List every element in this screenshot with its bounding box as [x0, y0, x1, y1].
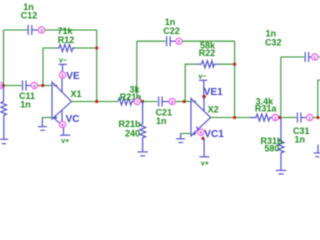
- junction right edge: [316, 116, 319, 119]
- junction inverting input X1: [41, 84, 44, 87]
- resistor R31b vertical: [278, 118, 284, 170]
- wire C22 top: [137, 40, 166, 42]
- node 2 bubble input left edge: [0, 82, 4, 88]
- wire node A2 to C21: [141, 101, 158, 103]
- op-amp X2: [191, 99, 211, 137]
- svg-text:VC1: VC1: [204, 129, 224, 140]
- resistor R22 58k: [185, 61, 234, 102]
- node bubble at C31 output: [307, 114, 313, 120]
- svg-text:240: 240: [125, 129, 140, 139]
- capacitor C31: [297, 113, 306, 123]
- capacitor C22: [167, 36, 176, 46]
- wire C22 to feedback corner right: [182, 40, 234, 42]
- ground under R31b: [276, 170, 286, 174]
- svg-text:VC: VC: [66, 114, 80, 125]
- power v+ symbol X1: [60, 128, 70, 145]
- wire C11 to X1 inverting input: [38, 85, 52, 87]
- node 4 bubble at C11 output: [31, 82, 37, 88]
- ground at right edge X3 plus input: [314, 145, 320, 157]
- wire C12 feedback left vertical: [3, 30, 5, 86]
- junction node A2: [141, 100, 144, 103]
- svg-text:R31a: R31a: [255, 104, 278, 114]
- node 9 bubble at C22 output: [176, 38, 182, 44]
- wire C32 to right edge: [318, 56, 320, 58]
- node 7 bubble at R21a output: [134, 98, 140, 104]
- junction R22/C22 feedback: [233, 63, 236, 66]
- node 6 bubble VC1: [198, 129, 204, 135]
- ground under R11b: [0, 139, 8, 143]
- node 5 bubble VE: [59, 72, 65, 78]
- wire C31 to right edge junction: [313, 117, 318, 119]
- resistor R21a 3k: [118, 98, 134, 105]
- capacitor C12: [28, 25, 38, 35]
- svg-text:v−: v−: [59, 57, 67, 64]
- node 8 bubble at C21 output: [169, 98, 175, 104]
- svg-text:C12: C12: [21, 11, 38, 21]
- capacitor C11: [23, 81, 31, 91]
- svg-text:VE1: VE1: [204, 87, 223, 98]
- power v+ symbol X2: [199, 138, 209, 167]
- wire C12 to feedback corner: [45, 29, 97, 31]
- wire feedback right vertical to X1 output: [96, 30, 98, 102]
- node 3 bubble at C12 output: [38, 27, 44, 33]
- junction R12/C12 feedback: [95, 46, 98, 49]
- svg-text:v+: v+: [61, 138, 69, 145]
- junction X1 output: [95, 100, 98, 103]
- svg-text:580: 580: [264, 144, 279, 154]
- wire node A3 to C31: [282, 117, 296, 119]
- capacitor C21: [159, 97, 169, 107]
- op-amp X1 V+ power pin: [61, 110, 63, 121]
- ground at X2 plus input: [176, 134, 185, 143]
- junction input node: [2, 84, 5, 87]
- wire input row: [4, 85, 22, 87]
- svg-text:1n: 1n: [20, 100, 31, 110]
- svg-text:R12: R12: [58, 35, 75, 45]
- resistor R21b vertical: [140, 102, 146, 152]
- op-amp X2 V+ power pin: [196, 127, 199, 131]
- svg-text:C32: C32: [265, 38, 282, 48]
- ground at X1 plus input: [38, 118, 47, 131]
- ground under R21b: [138, 152, 148, 156]
- svg-text:1n: 1n: [156, 116, 167, 126]
- node 10 bubble at R31a output: [272, 114, 278, 120]
- svg-text:VE: VE: [66, 71, 80, 82]
- resistor R31a 3.4k: [250, 114, 272, 121]
- svg-text:v+: v+: [201, 160, 209, 167]
- wire R32 left leg vertical: [318, 80, 320, 117]
- junction VC1 pin: [201, 137, 204, 140]
- svg-text:C22: C22: [163, 26, 180, 36]
- resistor R12 71k: [43, 45, 97, 86]
- op-amp X1 V- power pin: [61, 78, 63, 92]
- svg-text:X1: X1: [71, 89, 82, 99]
- wire feedback right vertical to X2 output: [234, 41, 236, 117]
- node 6 bubble VC: [59, 121, 65, 127]
- wire X2 noninverting input: [181, 133, 191, 135]
- wire C32 feedback left vertical: [280, 57, 282, 118]
- svg-text:1n: 1n: [295, 135, 306, 145]
- wire C32 top: [281, 56, 304, 58]
- wire C21 to X2 inverting input: [176, 101, 191, 103]
- wire C12 top left: [4, 29, 28, 31]
- wire C22 feedback left vertical: [136, 41, 138, 98]
- power v- symbol X1: [59, 57, 67, 71]
- junction node A3: [278, 116, 281, 119]
- junction X2 inverting input: [183, 100, 186, 103]
- junction X2 output: [233, 116, 236, 119]
- svg-text:v−: v−: [198, 73, 206, 80]
- svg-text:R22: R22: [199, 48, 216, 58]
- power v- symbol X2: [198, 73, 207, 96]
- node bubble at C32 output: [312, 54, 318, 60]
- wire X2 output row: [211, 117, 251, 119]
- svg-text:X2: X2: [208, 105, 219, 115]
- wire X1 noninverting input: [42, 117, 52, 119]
- op-amp X2 V- power pin: [203, 97, 205, 112]
- junction VE1 pin: [202, 95, 206, 99]
- resistor R11b vertical to ground: [1, 86, 7, 139]
- wire X1 output row: [72, 101, 119, 103]
- capacitor C32: [305, 52, 311, 62]
- op-amp X1: [52, 82, 72, 119]
